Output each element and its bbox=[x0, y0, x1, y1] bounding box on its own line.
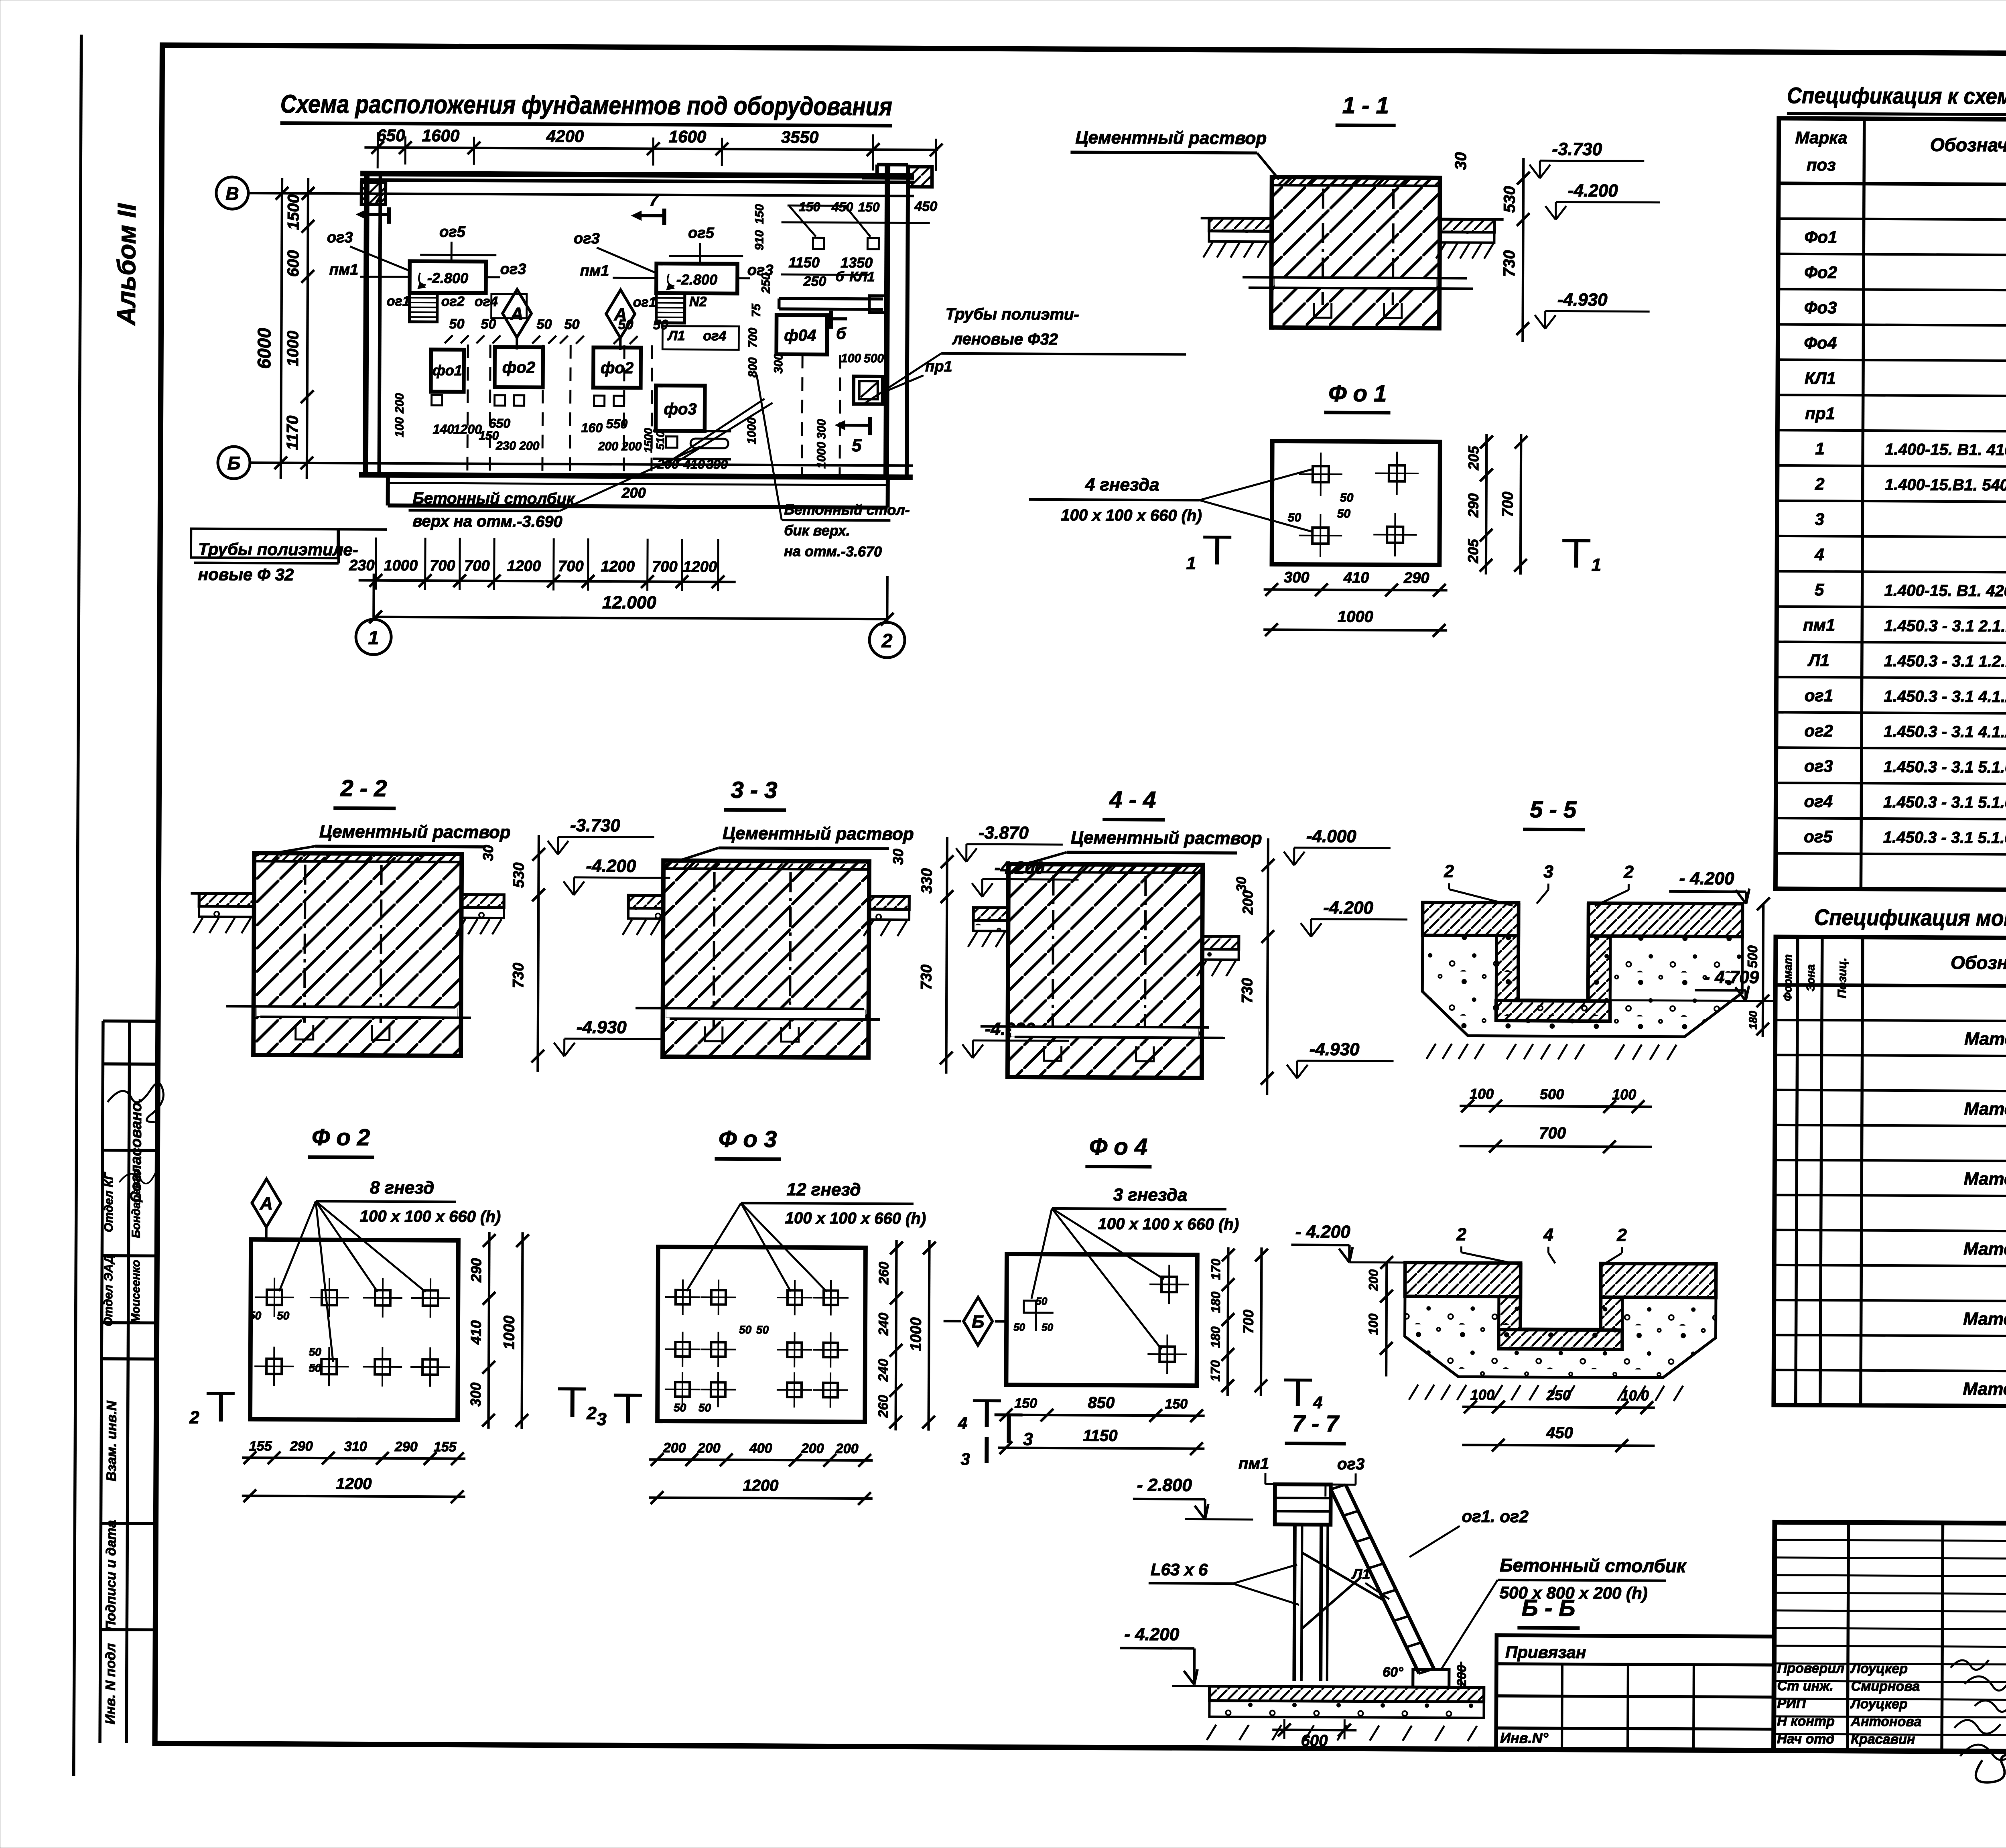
svg-text:ог4: ог4 bbox=[475, 294, 498, 309]
table2 row lines bbox=[1775, 1020, 2006, 1023]
svg-text:100: 100 bbox=[1612, 1086, 1636, 1103]
svg-text:1200: 1200 bbox=[507, 558, 541, 575]
title block left columns bbox=[1848, 1523, 1848, 1751]
section B-B bottom dims bbox=[1462, 1407, 1655, 1407]
section 3-3 dim column bbox=[946, 837, 947, 1074]
svg-text:Альбом II: Альбом II bbox=[112, 203, 141, 326]
svg-text:ог1. ог2: ог1. ог2 bbox=[1462, 1507, 1528, 1526]
svg-text:150: 150 bbox=[1165, 1396, 1188, 1411]
section 4-4 break band bbox=[1011, 1028, 1199, 1037]
svg-text:3: 3 bbox=[1023, 1430, 1033, 1449]
svg-text:А: А bbox=[260, 1194, 273, 1213]
svg-text:1200: 1200 bbox=[683, 558, 717, 575]
svg-text:1.450.3 - 3.1 4.1.2.1.0: 1.450.3 - 3.1 4.1.2.1.0 bbox=[1884, 688, 2006, 706]
section 3-3 level -4.200 bbox=[972, 858, 1078, 897]
svg-text:500: 500 bbox=[1540, 1086, 1564, 1102]
table1 header row line bbox=[1779, 183, 2006, 187]
privyazan box bbox=[1496, 1635, 1774, 1751]
section 1-1 level -4.200 bbox=[1545, 181, 1660, 220]
svg-text:50: 50 bbox=[249, 1309, 262, 1322]
svg-text:230: 230 bbox=[349, 557, 375, 574]
svg-text:ог3: ог3 bbox=[1337, 1455, 1364, 1473]
plan: leaders to top-right squares bbox=[789, 206, 816, 236]
section B-B top slab right bbox=[1601, 1263, 1716, 1298]
svg-text:50: 50 bbox=[309, 1362, 322, 1374]
svg-text:Материал: Материал bbox=[1964, 1169, 2006, 1189]
plan: building right wall bbox=[886, 164, 887, 477]
svg-text:1.400-15.В1. 540 - 09: 1.400-15.В1. 540 - 09 bbox=[1885, 476, 2006, 494]
section B-B ground ticks bbox=[1409, 1385, 1466, 1400]
svg-text:ф04: ф04 bbox=[784, 327, 816, 344]
section B-B channel wall liners bbox=[1499, 1297, 1521, 1330]
svg-text:Обозначение: Обозначение bbox=[1951, 952, 2006, 973]
svg-text:730: 730 bbox=[1239, 978, 1256, 1003]
svg-text:240: 240 bbox=[876, 1359, 891, 1382]
svg-text:Красавин: Красавин bbox=[1851, 1732, 1915, 1747]
section 2-2 level -4.200 bbox=[563, 856, 670, 896]
plan: section mark 7 right bbox=[662, 209, 666, 225]
svg-text:7 - 7: 7 - 7 bbox=[1292, 1411, 1340, 1437]
svg-text:3 гнезда: 3 гнезда bbox=[1113, 1185, 1188, 1205]
svg-text:200: 200 bbox=[393, 393, 406, 414]
plan: top-right anchor squares bbox=[813, 238, 824, 249]
plan: top dimension line bbox=[364, 148, 938, 150]
svg-text:-4.930: -4.930 bbox=[577, 1017, 627, 1038]
plan: left wall pilaster bbox=[361, 182, 386, 204]
svg-text:А: А bbox=[510, 304, 524, 324]
svg-text:700: 700 bbox=[430, 557, 455, 574]
svg-text:новые Ф 32: новые Ф 32 bbox=[198, 565, 294, 584]
detail Fo4 small corner socket bbox=[1024, 1301, 1036, 1313]
svg-text:Ф о 2: Ф о 2 bbox=[312, 1124, 370, 1151]
svg-text:1350: 1350 bbox=[841, 254, 873, 271]
svg-text:L63 x 6: L63 x 6 bbox=[1151, 1560, 1208, 1579]
svg-text:ог5: ог5 bbox=[1804, 827, 1833, 846]
section B-B channel floor bbox=[1498, 1330, 1622, 1349]
svg-text:730: 730 bbox=[1500, 250, 1518, 277]
svg-text:510: 510 bbox=[654, 431, 666, 450]
plan: foundation Fo2 a bbox=[495, 347, 543, 388]
title block left row lines bbox=[1775, 1540, 2006, 1541]
svg-text:Фо3: Фо3 bbox=[1804, 298, 1837, 317]
svg-text:700: 700 bbox=[558, 558, 584, 575]
svg-text:ог4: ог4 bbox=[1804, 792, 1833, 810]
section 2-2 dim column bbox=[538, 835, 539, 1072]
svg-text:240: 240 bbox=[876, 1313, 891, 1336]
table1 row lines bbox=[1779, 219, 2006, 222]
svg-text:330: 330 bbox=[918, 868, 935, 894]
svg-text:2: 2 bbox=[1444, 861, 1454, 881]
svg-text:1.400-15. В1. 410 - 03: 1.400-15. В1. 410 - 03 bbox=[1885, 441, 2006, 459]
plan: foundation Fo3 bbox=[656, 386, 705, 431]
section 7-7 bottom dim 600 bbox=[1272, 1728, 1356, 1731]
svg-text:50: 50 bbox=[756, 1324, 769, 1336]
plan: section mark 6 bbox=[831, 317, 847, 321]
svg-text:3: 3 bbox=[1815, 510, 1825, 528]
svg-text:5: 5 bbox=[852, 436, 862, 455]
svg-text:Л1: Л1 bbox=[667, 328, 685, 343]
svg-text:2: 2 bbox=[1456, 1225, 1466, 1244]
svg-text:Лоуцкер: Лоуцкер bbox=[1850, 1661, 1908, 1677]
detail Fo3 section marks 3 bbox=[626, 1395, 630, 1423]
svg-text:4: 4 bbox=[1814, 545, 1824, 564]
svg-text:180: 180 bbox=[1208, 1326, 1222, 1348]
svg-text:60°: 60° bbox=[1383, 1665, 1403, 1680]
table1 outer box bbox=[1775, 118, 2006, 892]
svg-text:800: 800 bbox=[746, 357, 759, 378]
svg-text:30: 30 bbox=[1452, 152, 1470, 170]
plan: axis B line bbox=[248, 193, 914, 196]
svg-text:1000: 1000 bbox=[1338, 608, 1373, 625]
svg-text:290: 290 bbox=[1403, 570, 1429, 587]
section 7-7 brace diagonals bbox=[1302, 1553, 1386, 1601]
svg-text:500 x 800 x 200 (h): 500 x 800 x 200 (h) bbox=[1500, 1583, 1648, 1603]
svg-text:1000: 1000 bbox=[908, 1317, 924, 1351]
svg-text:170: 170 bbox=[1208, 1259, 1223, 1280]
svg-text:Б: Б bbox=[972, 1312, 984, 1332]
section 3-3 foundation block bbox=[663, 861, 869, 1058]
svg-text:250: 250 bbox=[1546, 1387, 1571, 1403]
svg-text:50: 50 bbox=[618, 317, 633, 332]
svg-text:4: 4 bbox=[958, 1413, 968, 1432]
plan: stair hatch right PM1 bbox=[656, 293, 685, 323]
svg-text:Схема расположения фундаментов: Схема расположения фундаментов под обору… bbox=[280, 89, 892, 121]
svg-text:1000: 1000 bbox=[501, 1316, 518, 1350]
detail Fo1 bottom dims bbox=[1264, 589, 1448, 590]
svg-text:1 - 1: 1 - 1 bbox=[1342, 92, 1389, 119]
svg-text:30: 30 bbox=[1234, 877, 1249, 892]
svg-text:140: 140 bbox=[433, 422, 455, 436]
svg-text:1.450.3 - 3.1 1.2.1.0.0 - 0: 1.450.3 - 3.1 1.2.1.0.0 - 02 bbox=[1884, 652, 2006, 671]
svg-text:Моисеенко: Моисеенко bbox=[130, 1260, 143, 1323]
svg-text:50: 50 bbox=[1337, 507, 1351, 520]
svg-text:-2.800: -2.800 bbox=[676, 271, 717, 288]
svg-text:1200: 1200 bbox=[601, 558, 635, 575]
svg-text:- 4.200: - 4.200 bbox=[1295, 1222, 1351, 1242]
section 1-1 dim column bbox=[1523, 158, 1523, 342]
svg-text:4 - 4: 4 - 4 bbox=[1109, 787, 1156, 813]
svg-text:650: 650 bbox=[377, 126, 405, 145]
section 2-2 level -3.730 bbox=[548, 816, 654, 855]
svg-text:50: 50 bbox=[1042, 1321, 1054, 1333]
section 1-1 level -3.730 bbox=[1529, 139, 1644, 179]
section 5-5 concrete U body bbox=[1422, 935, 1742, 1037]
svg-text:100: 100 bbox=[393, 417, 406, 437]
section 4-4 anchor sleeves bbox=[1053, 875, 1054, 1048]
section B-B left rotated dims bbox=[1386, 1263, 1387, 1377]
svg-text:4200: 4200 bbox=[546, 126, 584, 145]
svg-text:500: 500 bbox=[864, 352, 884, 365]
svg-text:КЛ1: КЛ1 bbox=[849, 269, 875, 284]
svg-text:12 гнезд: 12 гнезд bbox=[787, 1180, 861, 1200]
svg-text:180: 180 bbox=[1208, 1292, 1223, 1313]
svg-text:Фо1: Фо1 bbox=[1804, 227, 1837, 246]
table2 column lines bbox=[1796, 937, 1798, 1405]
svg-text:-4.200: -4.200 bbox=[1323, 898, 1374, 918]
svg-text:250: 250 bbox=[759, 273, 773, 294]
section 2-2 level -4.930 bbox=[554, 1017, 661, 1057]
svg-text:Инв.N°: Инв.N° bbox=[1500, 1730, 1549, 1746]
svg-text:пм1: пм1 bbox=[580, 262, 609, 279]
svg-text:205: 205 bbox=[1465, 445, 1482, 470]
svg-text:1: 1 bbox=[1186, 553, 1196, 573]
section 7-7 ladder stringers bbox=[1330, 1489, 1420, 1673]
svg-text:РИП: РИП bbox=[1777, 1696, 1806, 1711]
svg-text:300: 300 bbox=[772, 353, 785, 374]
svg-text:Б: Б bbox=[227, 453, 241, 473]
section 5-5 right rotated dims bbox=[1763, 904, 1763, 1037]
svg-text:1150: 1150 bbox=[788, 254, 820, 270]
svg-text:б: б bbox=[835, 269, 844, 284]
svg-text:3: 3 bbox=[597, 1409, 607, 1429]
svg-text:5: 5 bbox=[1815, 580, 1824, 599]
plan: foundation Fo1 bbox=[431, 349, 464, 392]
svg-text:850: 850 bbox=[1088, 1394, 1115, 1411]
section 2-2 anchor sleeves bbox=[305, 865, 305, 1027]
svg-text:155: 155 bbox=[249, 1438, 272, 1454]
svg-text:7: 7 bbox=[374, 189, 384, 208]
svg-text:1600: 1600 bbox=[669, 127, 707, 146]
svg-text:3: 3 bbox=[960, 1450, 970, 1468]
svg-text:Ф о 3: Ф о 3 bbox=[719, 1126, 777, 1152]
svg-text:50: 50 bbox=[1288, 511, 1301, 524]
svg-text:Смирнова: Смирнова bbox=[1851, 1679, 1920, 1694]
plan: canal KL1 band bbox=[779, 299, 883, 299]
svg-text:50: 50 bbox=[1340, 491, 1354, 504]
section 5-5 ground ticks bbox=[1427, 1044, 1484, 1059]
svg-text:1500: 1500 bbox=[285, 194, 303, 230]
svg-text:-3.730: -3.730 bbox=[570, 816, 621, 836]
section 4-4 floor slab left bbox=[973, 908, 1008, 920]
svg-text:205: 205 bbox=[1465, 538, 1481, 563]
svg-text:50: 50 bbox=[277, 1310, 290, 1322]
svg-text:пм1: пм1 bbox=[329, 261, 359, 278]
section 7-7 ground slab bbox=[1210, 1686, 1484, 1702]
svg-text:290: 290 bbox=[394, 1439, 418, 1454]
plan: dashed diagonals bbox=[668, 398, 765, 463]
detail Fo4 right dims bbox=[1228, 1247, 1228, 1396]
svg-text:50: 50 bbox=[449, 316, 465, 331]
section 2-2 foundation block bbox=[254, 853, 462, 1056]
svg-text:Ф о 1: Ф о 1 bbox=[1328, 380, 1387, 407]
svg-text:50: 50 bbox=[698, 1401, 711, 1414]
svg-text:700: 700 bbox=[652, 558, 678, 575]
svg-text:300: 300 bbox=[1284, 569, 1310, 586]
section 2-2 floor slab left bbox=[199, 894, 254, 907]
plan: section mark 7 left bbox=[387, 207, 391, 224]
svg-text:50: 50 bbox=[739, 1324, 752, 1336]
svg-text:450: 450 bbox=[831, 200, 853, 214]
svg-text:Лоуцкер: Лоуцкер bbox=[1850, 1696, 1907, 1712]
svg-text:50: 50 bbox=[564, 317, 580, 332]
svg-text:2: 2 bbox=[189, 1408, 199, 1428]
left stamp strip cell lines bbox=[103, 1019, 158, 1023]
svg-text:Привязан: Привязан bbox=[1505, 1643, 1586, 1662]
svg-text:150: 150 bbox=[799, 199, 820, 214]
svg-text:Трубы полиэти-: Трубы полиэти- bbox=[946, 305, 1079, 323]
svg-text:230 200: 230 200 bbox=[495, 439, 540, 453]
title block signature squiggles bbox=[1950, 1660, 2006, 1712]
svg-text:1200: 1200 bbox=[453, 422, 482, 436]
section 3-3 level -3.870 bbox=[956, 823, 1063, 862]
svg-text:ог3: ог3 bbox=[1804, 757, 1833, 776]
svg-text:Спецификация к схемам располож: Спецификация к схемам расположения фунда… bbox=[1787, 83, 2006, 111]
detail Fo2 right dims bbox=[488, 1232, 489, 1429]
svg-text:Материал: Материал bbox=[1964, 1099, 2006, 1119]
svg-text:Нач отд: Нач отд bbox=[1777, 1731, 1834, 1747]
svg-text:1000: 1000 bbox=[284, 331, 302, 366]
svg-text:1: 1 bbox=[1815, 439, 1825, 458]
svg-text:200 200: 200 200 bbox=[598, 440, 642, 453]
plan: bottom dim row bbox=[359, 580, 736, 582]
svg-text:Зона: Зона bbox=[1804, 964, 1817, 991]
section 3-3 floor slab right bbox=[869, 896, 909, 909]
section 1-1 anchor sleeves bbox=[1323, 189, 1323, 305]
section B-B top slab left bbox=[1405, 1263, 1521, 1297]
svg-text:730: 730 bbox=[510, 963, 527, 988]
svg-text:700: 700 bbox=[1539, 1124, 1566, 1142]
svg-text:75: 75 bbox=[750, 303, 763, 317]
svg-text:1170: 1170 bbox=[284, 416, 301, 450]
section 3-3 break band bbox=[666, 1009, 865, 1019]
detail Fo3 diamond B bbox=[963, 1297, 993, 1345]
svg-text:Спецификация монолитных фунда: Спецификация монолитных фундаментов под … bbox=[1814, 904, 2006, 932]
svg-text:12.000: 12.000 bbox=[602, 593, 656, 613]
svg-text:5 - 5: 5 - 5 bbox=[1530, 796, 1577, 823]
svg-text:Обозначение: Обозначение bbox=[1930, 134, 2006, 156]
svg-text:700: 700 bbox=[1499, 491, 1516, 517]
detail Fo4 plate bbox=[1006, 1254, 1197, 1386]
plan: diamond mark A1 bbox=[502, 289, 532, 337]
detail Fo3 anchor sockets bbox=[665, 1279, 700, 1315]
plan: dashed axes right bbox=[802, 355, 802, 474]
svg-text:1.450.3 - 3.1 5.1.0.1.0: 1.450.3 - 3.1 5.1.0.1.0 bbox=[1884, 758, 2006, 776]
section 3-3 anchor sleeves bbox=[714, 872, 715, 1028]
svg-text:ог1: ог1 bbox=[633, 294, 656, 310]
svg-text:ог2: ог2 bbox=[1804, 721, 1833, 740]
detail Fo3 leader lines bbox=[686, 1203, 741, 1292]
svg-text:7: 7 bbox=[649, 191, 659, 209]
svg-text:2: 2 bbox=[586, 1403, 597, 1423]
detail Fo4 leader lines bbox=[1052, 1208, 1164, 1279]
plan: left vertical dim lines bbox=[281, 178, 282, 479]
svg-text:Материал: Материал bbox=[1963, 1379, 2006, 1399]
svg-text:В: В bbox=[225, 183, 239, 204]
svg-text:- 2.800: - 2.800 bbox=[1137, 1475, 1192, 1495]
svg-text:1: 1 bbox=[1592, 555, 1602, 575]
svg-text:290: 290 bbox=[1465, 493, 1481, 518]
svg-text:Н контр: Н контр bbox=[1777, 1714, 1835, 1729]
svg-text:-4.200: -4.200 bbox=[586, 856, 637, 876]
svg-text:290: 290 bbox=[468, 1258, 484, 1283]
stamp signature squiggle bbox=[108, 1083, 164, 1122]
plan: section mark 5 bottom bbox=[845, 424, 870, 427]
plan: stair hatch left PM1 bbox=[410, 293, 437, 322]
section 2-2 floor slab right bbox=[461, 895, 504, 908]
plan: building top wall bbox=[360, 173, 914, 176]
svg-text:1.450.3 - 3.1 5.1.0.1.0.04: 1.450.3 - 3.1 5.1.0.1.0.04 bbox=[1883, 829, 2006, 847]
svg-text:- 4.200: - 4.200 bbox=[1679, 869, 1734, 889]
section 4-4 floor slab right bbox=[1202, 936, 1239, 949]
section 5-5 top slab right bbox=[1588, 903, 1742, 937]
svg-text:ог5: ог5 bbox=[688, 225, 715, 242]
svg-text:700: 700 bbox=[1240, 1310, 1257, 1334]
svg-text:4: 4 bbox=[1543, 1225, 1553, 1245]
svg-text:50: 50 bbox=[674, 1401, 686, 1414]
plan: platform PM1 right bbox=[656, 264, 737, 294]
svg-text:410: 410 bbox=[1343, 569, 1369, 586]
left stamp strip verticals bbox=[100, 1021, 103, 1743]
svg-text:Проверил: Проверил bbox=[1777, 1661, 1844, 1676]
plan: axis 2 line bbox=[886, 576, 889, 622]
svg-text:50: 50 bbox=[1013, 1321, 1025, 1333]
section 1-1 break band bbox=[1275, 278, 1436, 288]
svg-text:Антонова: Антонова bbox=[1850, 1714, 1921, 1730]
svg-text:1000: 1000 bbox=[384, 557, 418, 574]
svg-text:50: 50 bbox=[653, 317, 668, 333]
svg-text:2 - 2: 2 - 2 bbox=[340, 775, 387, 802]
plan: axis 1 line bbox=[372, 574, 375, 619]
svg-text:600: 600 bbox=[1301, 1732, 1328, 1750]
plan: trubyi label left callout box bbox=[191, 529, 338, 558]
svg-text:пр1: пр1 bbox=[925, 358, 952, 375]
svg-text:1.450.3 - 3.1 5.1.0.1.0-01: 1.450.3 - 3.1 5.1.0.1.0-01 bbox=[1883, 793, 2006, 812]
svg-text:730: 730 bbox=[918, 965, 935, 990]
plan: platform PM1 left bbox=[410, 261, 486, 293]
plan: axis 1 circle bbox=[356, 619, 391, 654]
svg-text:170: 170 bbox=[1208, 1360, 1222, 1382]
detail Fo4 section marks 4 bbox=[985, 1401, 989, 1427]
detail Fo2 leader lines bbox=[279, 1201, 316, 1292]
detail Fo1 right dims bbox=[1486, 434, 1487, 575]
svg-text:2: 2 bbox=[1815, 474, 1825, 493]
svg-text:550: 550 bbox=[606, 416, 628, 431]
svg-text:Л1: Л1 bbox=[1351, 1566, 1370, 1582]
svg-text:бик верх.: бик верх. bbox=[784, 522, 850, 539]
svg-text:100 x 100 x 660 (h): 100 x 100 x 660 (h) bbox=[785, 1209, 926, 1228]
title block outer bbox=[1774, 1522, 2006, 1754]
svg-text:150: 150 bbox=[1014, 1396, 1037, 1411]
section 5-5 channel floor bbox=[1496, 1001, 1610, 1021]
svg-text:10 0: 10 0 bbox=[1621, 1387, 1649, 1403]
svg-text:160: 160 bbox=[581, 420, 603, 435]
section 1-1 floor slab right bbox=[1440, 219, 1494, 232]
svg-text:Марка: Марка bbox=[1795, 128, 1848, 147]
section 1-1 level -4.930 bbox=[1535, 290, 1649, 329]
section 3-3 level -4.930 bbox=[962, 1019, 1069, 1058]
section 7-7 ladder foot bbox=[1413, 1669, 1449, 1687]
plan: diamond mark A2 bbox=[606, 290, 635, 338]
svg-text:530: 530 bbox=[1501, 186, 1519, 213]
svg-text:- 4.200: - 4.200 bbox=[1124, 1625, 1180, 1645]
svg-text:ог3: ог3 bbox=[500, 261, 526, 278]
svg-text:30: 30 bbox=[480, 845, 496, 861]
section 4-4 level -4.200 bbox=[1301, 898, 1407, 937]
svg-text:леновые Ф32: леновые Ф32 bbox=[952, 330, 1058, 348]
detail Fo1 plate bbox=[1272, 441, 1440, 565]
table1 column lines bbox=[1861, 119, 1864, 889]
svg-text:200: 200 bbox=[1239, 890, 1256, 915]
svg-text:1: 1 bbox=[368, 628, 379, 649]
svg-text:1000: 1000 bbox=[745, 417, 758, 444]
plan: foundation Fo2 b bbox=[593, 347, 641, 388]
section 7-7 posts bbox=[1294, 1525, 1295, 1681]
section 7-7 platform box bbox=[1275, 1484, 1330, 1525]
plan: axis 2 circle bbox=[869, 622, 905, 658]
plan: anchor squares row bbox=[432, 395, 442, 405]
svg-text:650: 650 bbox=[489, 416, 511, 431]
svg-text:Ф о 4: Ф о 4 bbox=[1089, 1133, 1147, 1160]
